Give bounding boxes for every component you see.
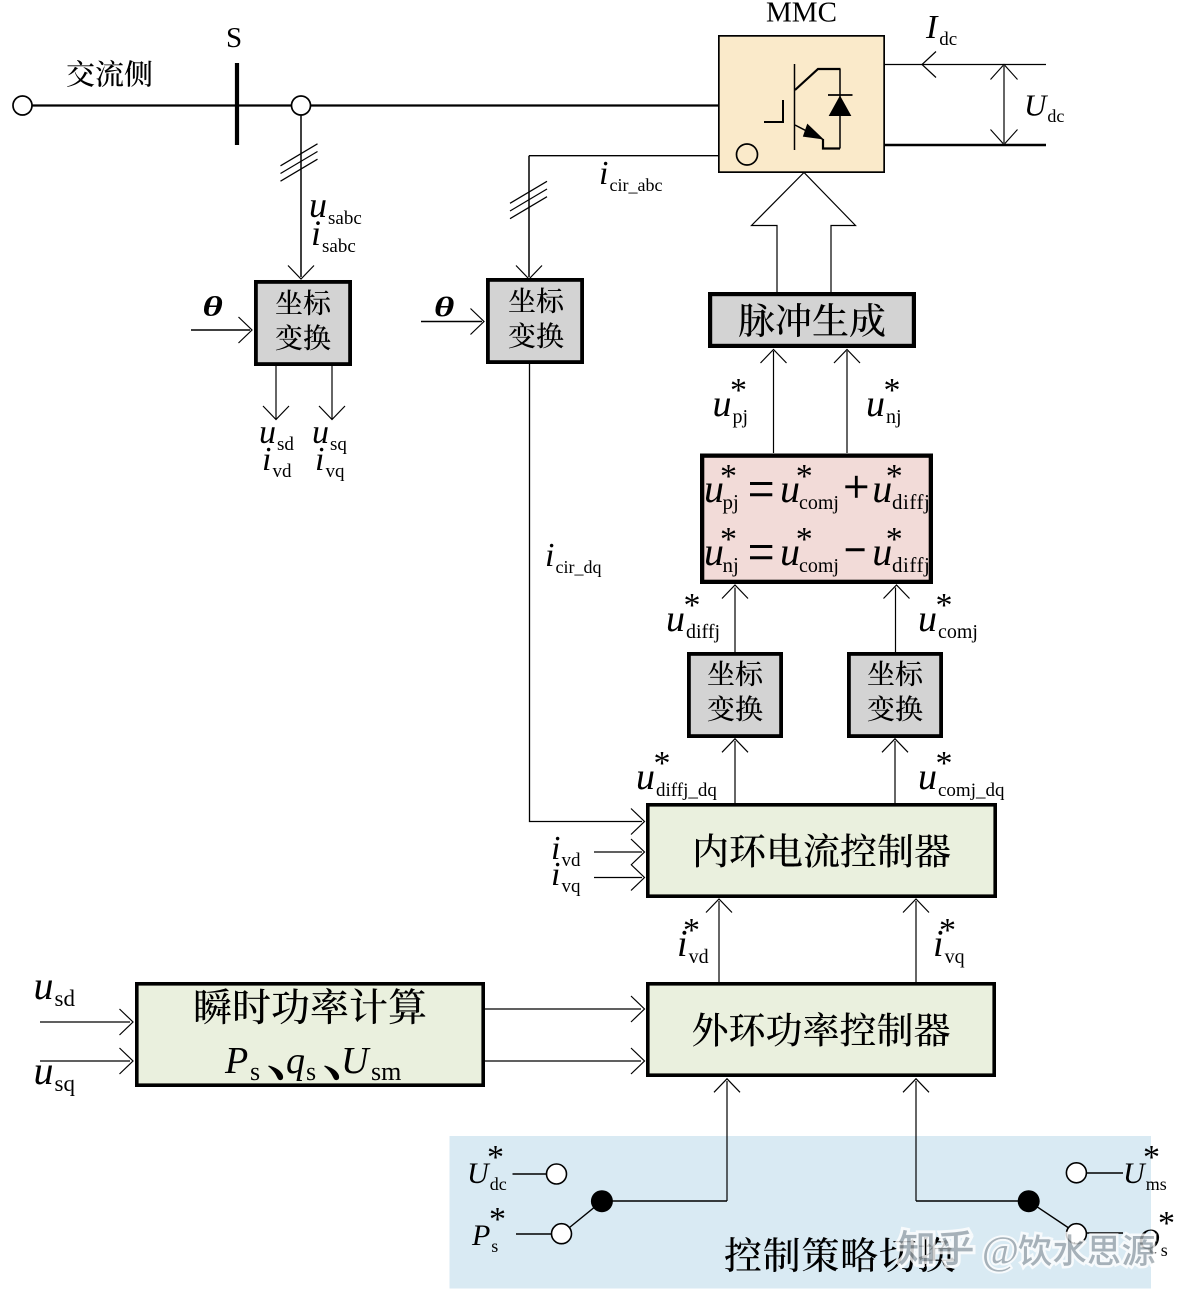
svg-text:vd: vd (273, 461, 293, 482)
wire: u_comj_dq into transform 4 (882, 739, 908, 803)
arrowhead into transform 1 (288, 266, 314, 280)
label i_cir_abc (599, 155, 662, 195)
label u_sd out (259, 414, 294, 455)
svg-text:comj: comj (799, 492, 839, 514)
svg-text:*: * (884, 372, 901, 409)
block: MMC converter box (719, 36, 884, 172)
block: pulse generation (脉冲生成) (710, 294, 914, 346)
label P*_s (471, 1201, 506, 1256)
label u_sq out (312, 414, 347, 455)
svg-text:θ: θ (434, 293, 454, 323)
svg-text:*: * (683, 912, 700, 949)
wire: DC negative bus (885, 144, 1046, 147)
svg-text:s: s (250, 1057, 260, 1086)
svg-text:i: i (599, 155, 608, 192)
arrowhead I_dc (pointing left) (922, 52, 936, 78)
wire: i*_vq reference (903, 899, 929, 982)
wire: i_cir_abc horizontal (529, 155, 718, 157)
arrowhead d output (263, 406, 289, 420)
block: coordinate transform 1 (坐标变换) (256, 282, 350, 364)
diode anode-cathode vertical (839, 69, 841, 149)
switch pole right (filled) (1018, 1190, 1040, 1212)
svg-text:s: s (491, 1236, 498, 1256)
label u*_diffj_dq (636, 745, 717, 801)
diode triangle (830, 97, 851, 116)
label i*_vq (933, 912, 965, 968)
svg-text:u: u (34, 963, 54, 1008)
lead to U_dc contact (513, 1173, 547, 1175)
svg-text:u: u (918, 598, 937, 640)
block: inner current controller (内环电流控制器) (648, 805, 995, 896)
wire: i*_vd reference (706, 899, 732, 982)
IGBT collector-emitter bar (794, 64, 796, 150)
svg-text:*: * (487, 1139, 504, 1176)
label u_sabc (309, 185, 362, 229)
svg-text:u: u (713, 383, 732, 425)
formula u*_nj = u*_comj - u*_diffj (704, 521, 930, 577)
svg-text:U: U (1024, 88, 1049, 123)
diode cathode bar (828, 94, 853, 96)
svg-text:dc: dc (939, 29, 957, 50)
block: outer power controller (外环功率控制器) (648, 984, 994, 1075)
label i_vq out (315, 441, 345, 482)
IGBT emitter arrow (804, 125, 823, 139)
label U*_ms (1123, 1139, 1167, 1194)
wire: i_vd input (594, 839, 645, 865)
breaker S bar (235, 63, 239, 145)
watermark 知乎 @饮水思源 (899, 1228, 1155, 1273)
svg-text:vd: vd (689, 946, 709, 968)
svg-text:diffj: diffj (892, 553, 930, 577)
svg-text:nj: nj (723, 553, 739, 577)
contact circle U_ms (1066, 1163, 1086, 1183)
lead from Q_s contact (1087, 1232, 1123, 1234)
label i_vd out (262, 441, 292, 482)
svg-text:@: @ (982, 1228, 1019, 1273)
svg-text:P: P (471, 1219, 490, 1252)
svg-text:i: i (315, 441, 324, 478)
wire: P to outer controller (485, 996, 645, 1022)
svg-text:*: * (796, 521, 813, 558)
svg-text:*: * (1158, 1205, 1175, 1242)
wire: emitter to diode bottom (823, 139, 840, 149)
arrowhead U_dc top (991, 65, 1018, 80)
wire: i_vq input (594, 865, 645, 891)
svg-text:*: * (1143, 1139, 1160, 1176)
block: coordinate transform 3 (坐标变换) (689, 654, 781, 736)
wire: u_diffj_dq into transform 3 (722, 739, 748, 803)
block: voltage reference composition formulas (702, 456, 931, 582)
hollow block arrow to MMC (752, 173, 856, 293)
arrowhead q output (319, 406, 345, 420)
svg-text:*: * (654, 745, 671, 782)
wire: u_comj into formula box (884, 585, 910, 652)
svg-text:vd: vd (562, 850, 582, 871)
label U_dc (1024, 88, 1064, 127)
contact circle P_s (552, 1224, 572, 1244)
wire: measurement tap down to transform 1 (300, 115, 302, 277)
wire: u_pj into pulse gen (761, 350, 787, 454)
svg-text:comj: comj (938, 621, 978, 643)
lead to P_s contact (516, 1233, 551, 1235)
wire: left pole to riser (602, 1200, 727, 1202)
svg-text:diffj_dq: diffj_dq (656, 780, 717, 801)
IGBT gate lead (764, 100, 783, 122)
svg-text:i: i (311, 213, 321, 253)
wire: transform1 d output (275, 366, 277, 419)
svg-text:s: s (1161, 1240, 1168, 1260)
block: instantaneous power calculation (瞬时功率计算) (137, 984, 483, 1085)
label Q*_s (1138, 1205, 1175, 1260)
wire: AC bus from source terminal to MMC (32, 104, 718, 106)
formula u*_pj = u*_comj + u*_diffj (704, 458, 930, 514)
node: PCC junction circle (292, 96, 311, 115)
svg-text:*: * (796, 458, 813, 495)
svg-text:vq: vq (945, 946, 965, 968)
switch arm right (1029, 1201, 1068, 1227)
svg-text:comj_dq: comj_dq (938, 780, 1005, 801)
label S (breaker) (226, 22, 242, 54)
label u*_pj (713, 372, 749, 428)
switch pole left (filled) (591, 1190, 613, 1212)
label MMC (766, 0, 837, 29)
svg-text:i: i (262, 441, 271, 478)
svg-text:vq: vq (326, 461, 346, 482)
svg-text:i: i (545, 537, 554, 574)
svg-text:*: * (489, 1201, 506, 1238)
svg-text:sm: sm (371, 1057, 401, 1086)
svg-text:vq: vq (562, 876, 582, 897)
wire: transform1 q output (331, 366, 333, 419)
svg-text:diffj: diffj (892, 490, 930, 514)
svg-text:comj: comj (799, 555, 839, 577)
label u*_comj_dq (918, 745, 1005, 801)
three-phase slashes on tap 1 (281, 144, 318, 181)
svg-text:pj: pj (723, 490, 739, 514)
arrowhead into transform 2 (516, 266, 542, 280)
text 控制策略切换 (725, 1237, 955, 1272)
svg-text:*: * (936, 587, 953, 624)
svg-text:dc: dc (490, 1174, 507, 1194)
AC source terminal circle (13, 96, 32, 115)
arrowhead U_dc bottom (991, 130, 1018, 145)
wire: DC positive bus (885, 64, 1046, 66)
label u*_diffj (666, 587, 720, 643)
label u_sd input (34, 963, 76, 1011)
block: coordinate transform 2 (坐标变换) (488, 280, 582, 362)
svg-text:*: * (939, 912, 956, 949)
svg-text:*: * (730, 372, 747, 409)
svg-text:diffj: diffj (686, 621, 720, 643)
svg-text:*: * (684, 587, 701, 624)
svg-text:s: s (306, 1057, 316, 1086)
wire: u_sq input (40, 1048, 133, 1074)
svg-text:u: u (918, 756, 937, 798)
svg-text:i: i (551, 856, 560, 893)
label i_vq (551, 856, 581, 897)
measure line U_dc (1003, 66, 1005, 143)
label u*_nj (866, 372, 902, 428)
label theta 2 (434, 293, 454, 323)
IGBT collector lead (795, 69, 841, 90)
svg-text:I: I (925, 9, 939, 46)
wire: left reference up to outer controller (714, 1079, 740, 1201)
svg-text:sd: sd (277, 434, 294, 455)
label U*_dc (467, 1139, 507, 1194)
label i_vd (551, 830, 581, 871)
svg-text:cir_dq: cir_dq (556, 557, 602, 577)
svg-text:P: P (224, 1040, 248, 1082)
label 交流侧 (AC side) (67, 60, 152, 87)
svg-text:cir_abc: cir_abc (610, 175, 663, 195)
wire: theta into transform 2 (421, 309, 484, 335)
svg-text:pj: pj (733, 406, 749, 428)
svg-text:S: S (226, 22, 242, 54)
svg-text:nj: nj (886, 406, 902, 428)
block: coordinate transform 4 (坐标变换) (849, 654, 941, 736)
wire: u_sd input (40, 1009, 133, 1035)
label u_sq input (34, 1048, 76, 1096)
svg-text:θ: θ (203, 292, 223, 322)
wire: Q to outer controller (485, 1048, 645, 1074)
svg-text:sd: sd (55, 986, 76, 1011)
panel: control strategy switching background (450, 1136, 1152, 1289)
IGBT emitter lead (795, 125, 823, 140)
svg-text:u: u (636, 756, 655, 798)
wire: right pole to riser (916, 1200, 1029, 1202)
label i_sabc (311, 213, 356, 257)
svg-text:u: u (666, 598, 685, 640)
MMC port circle (737, 144, 758, 165)
label i*_vd (677, 912, 709, 968)
svg-text:q: q (286, 1040, 305, 1082)
wire: i_cir_dq from transform 2 to inner controller (530, 364, 645, 835)
wire: u_diffj into formula box (722, 585, 748, 652)
svg-text:MMC: MMC (766, 0, 837, 29)
label i_cir_dq (545, 537, 601, 577)
wire: i_cir_abc vertical to transform 2 (528, 156, 530, 277)
wire: u_nj into pulse gen (834, 350, 860, 454)
svg-text:u: u (866, 383, 885, 425)
wire: theta into transform 1 (191, 317, 252, 343)
text 瞬时功率计算 (196, 988, 426, 1024)
label theta 1 (203, 292, 223, 322)
label u*_comj (918, 587, 978, 643)
switch arm left (570, 1201, 602, 1227)
lead from U_ms contact (1087, 1172, 1123, 1174)
svg-text:*: * (936, 745, 953, 782)
svg-text:sabc: sabc (322, 236, 356, 257)
contact circle Q_s (1066, 1224, 1086, 1244)
contact circle U_dc (547, 1164, 567, 1184)
label I_dc (925, 9, 957, 50)
svg-text:sq: sq (330, 434, 347, 455)
text P_s, q_s, U_sm (224, 1040, 401, 1086)
svg-text:sabc: sabc (328, 208, 362, 229)
wire: right reference up to outer controller (903, 1079, 929, 1201)
three-phase slashes on cir tap (510, 181, 547, 218)
svg-text:ms: ms (1146, 1174, 1167, 1194)
svg-text:u: u (34, 1048, 54, 1093)
svg-text:dc: dc (1047, 106, 1064, 126)
svg-text:U: U (341, 1040, 371, 1082)
svg-text:sq: sq (55, 1071, 76, 1096)
